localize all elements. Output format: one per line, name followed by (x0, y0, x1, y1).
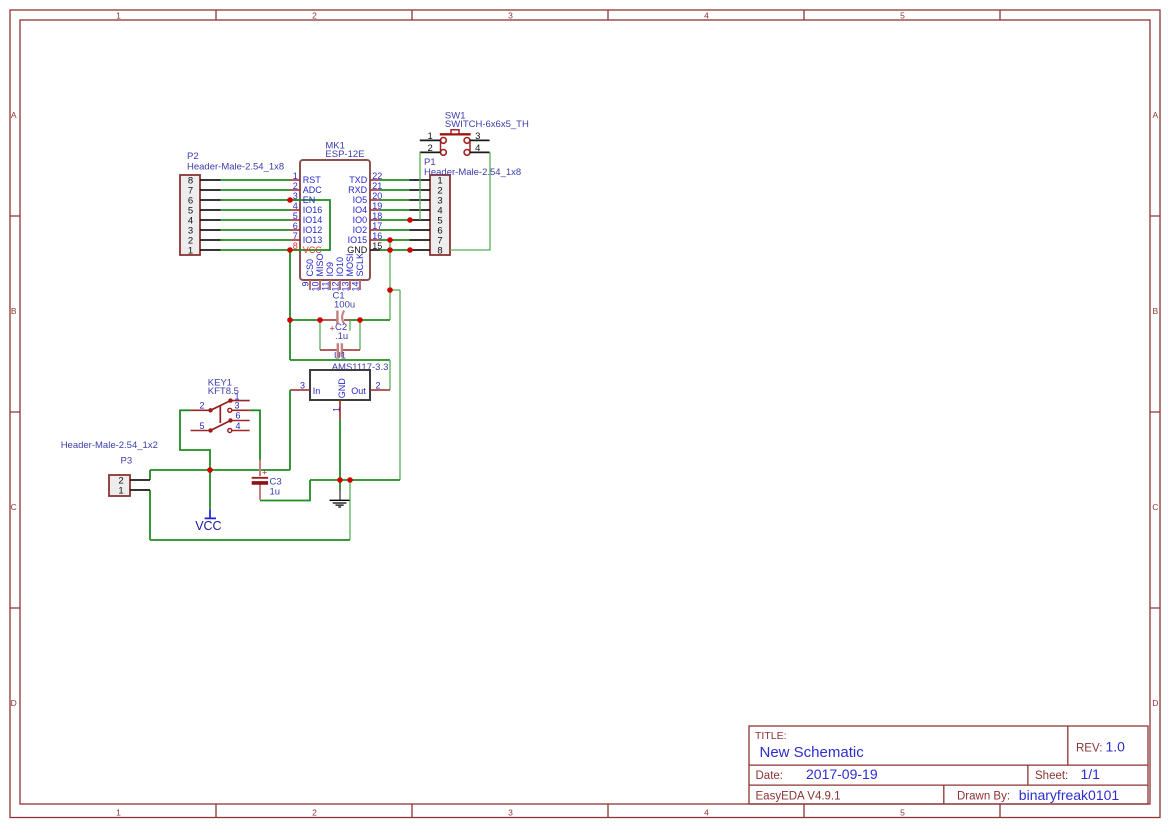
svg-text:IO13: IO13 (303, 235, 323, 245)
svg-text:5: 5 (900, 10, 905, 20)
svg-text:8: 8 (437, 245, 442, 256)
capacitor C2 labels (335, 322, 348, 342)
frame tick marks top (216, 10, 1000, 20)
svg-text:5: 5 (199, 421, 204, 431)
switch SW1 labels (445, 110, 529, 130)
wire ground rail left drop to C3 (260, 480, 310, 501)
switch KEY1 pin numbers (199, 391, 240, 430)
switch KEY1 labels (208, 377, 239, 397)
svg-text:IO2: IO2 (353, 225, 368, 235)
wire C2 parallel left vertical (319, 320, 321, 350)
switch SW1 button bar (440, 133, 471, 135)
capacitor C1 curved plate (342, 311, 344, 325)
svg-text:IO4: IO4 (353, 205, 368, 215)
switch SW1 pin lines (420, 140, 490, 152)
svg-text:2: 2 (428, 143, 433, 154)
wire MK1 TXD to P1 pin1 (380, 179, 410, 181)
header P1 body (430, 175, 450, 255)
svg-text:A: A (11, 110, 17, 120)
svg-text:4: 4 (293, 201, 298, 211)
svg-text:RXD: RXD (348, 185, 368, 195)
regulator U1 labels (332, 351, 389, 374)
svg-text:15: 15 (372, 241, 382, 251)
svg-text:17: 17 (372, 221, 382, 231)
header P3 body (109, 475, 130, 496)
chip MK1 ESP-12E body (300, 160, 370, 280)
wire P2 pin1 to MK1 VCC (221, 249, 291, 251)
frame tick marks bottom (216, 804, 1000, 818)
svg-text:3: 3 (300, 381, 305, 391)
svg-text:9: 9 (301, 282, 311, 287)
chip MK1 left pin stubs 1-7 (290, 180, 300, 250)
wire SW1 pin4 down and left to P1 pin8 (450, 152, 490, 250)
ground symbol bars (330, 500, 350, 507)
svg-text:EN: EN (303, 195, 316, 205)
switch KEY1 contact dots (208, 398, 232, 432)
chip MK1 left pin names (303, 175, 323, 255)
svg-text:11: 11 (321, 282, 331, 291)
switch KEY1 pin lines (191, 401, 250, 431)
svg-text:TXD: TXD (349, 175, 368, 185)
svg-text:MOSI: MOSI (345, 253, 355, 276)
frame row letters left (11, 110, 17, 708)
svg-text:1: 1 (331, 407, 341, 412)
switch KEY1 diagonal bars (211, 401, 231, 431)
wire C2 parallel right vertical (359, 320, 361, 350)
svg-text:7: 7 (293, 231, 298, 241)
wire P2 pin4 to MK1 IO14 (221, 219, 291, 221)
svg-text:CS0: CS0 (305, 259, 315, 277)
svg-text:1: 1 (116, 808, 121, 818)
wire P3 pin2 up to VCC rail (149, 470, 151, 480)
switch SW1 button bump (451, 130, 459, 134)
VCC net flag symbol (205, 509, 216, 518)
svg-text:binaryfreak0101: binaryfreak0101 (1019, 787, 1120, 803)
svg-text:2017-09-19: 2017-09-19 (806, 766, 878, 782)
wire P3 pin1 to bottom rail (149, 490, 151, 540)
svg-text:6: 6 (235, 411, 240, 421)
wire U1 In down to VCC rail (289, 390, 291, 470)
wire KEY1 pin3 to C3 (250, 410, 260, 460)
frame row letters right (1152, 110, 1158, 708)
svg-text:SCLK: SCLK (355, 253, 365, 277)
wire SW1 pin2 down to P1 pin5 row (419, 152, 421, 220)
capacitor C3 top plate (252, 477, 268, 479)
svg-text:RST: RST (303, 175, 322, 185)
svg-text:Drawn By:: Drawn By: (957, 790, 1010, 802)
ground symbol stem (339, 480, 341, 490)
wire dangling stub at C1 right (349, 320, 351, 331)
switch SW1 side links (441, 140, 471, 152)
svg-text:IO10: IO10 (335, 257, 345, 277)
svg-text:1: 1 (428, 131, 433, 142)
capacitor C1 straight plate (336, 311, 338, 325)
svg-text:Header-Male-2.54_1x8: Header-Male-2.54_1x8 (187, 161, 284, 172)
chip MK1 right pin stubs 22-16 (370, 180, 380, 240)
svg-text:12: 12 (331, 282, 341, 292)
wire MK1 IO2 to P1 pin6 (380, 229, 410, 231)
title block values (760, 739, 1126, 803)
wire MK1 IO15 to P1 pin7 (380, 239, 410, 241)
switch KEY1 open contacts (228, 408, 232, 432)
wire MK1 RXD to P1 pin2 (380, 189, 410, 191)
wire MK1 GND to P1 pin8 (380, 249, 410, 251)
svg-text:B: B (11, 306, 17, 316)
regulator U1 pin numbers (300, 381, 381, 412)
svg-text:1u: 1u (270, 486, 281, 497)
svg-text:3: 3 (475, 131, 480, 142)
svg-text:Header-Male-2.54_1x2: Header-Male-2.54_1x2 (61, 440, 158, 451)
svg-text:IO15: IO15 (348, 235, 368, 245)
svg-text:Date:: Date: (756, 770, 784, 782)
wire GND net vertical IO15-GND rows down (389, 240, 391, 320)
svg-text:2: 2 (312, 808, 317, 818)
svg-text:3: 3 (508, 10, 513, 20)
regulator U1 pin stubs (290, 390, 390, 420)
wire ground loop right drop (349, 480, 351, 540)
svg-text:C: C (1152, 502, 1158, 512)
capacitor C3 bottom plate (252, 481, 268, 485)
wire KEY1 pin2 staircase to VCC junction (180, 410, 210, 470)
wire VCC33 rail to U1 Out (290, 359, 390, 361)
wire GND long vertical x400 (399, 290, 401, 480)
svg-text:A: A (1152, 110, 1158, 120)
svg-text:2: 2 (199, 400, 204, 410)
capacitor C3 labels (270, 476, 282, 497)
svg-text:REV:: REV: (1076, 743, 1102, 755)
regulator U1 body (310, 370, 370, 400)
junction dots (207, 197, 413, 483)
header P3 pin stubs (130, 480, 150, 490)
svg-text:13: 13 (341, 282, 351, 292)
svg-text:1/1: 1/1 (1081, 766, 1101, 782)
frame column numbers top (116, 10, 905, 20)
header P2 body (180, 175, 200, 255)
svg-text:New Schematic: New Schematic (760, 744, 865, 761)
header P2 labels (187, 151, 284, 173)
svg-text:Header-Male-2.54_1x8: Header-Male-2.54_1x8 (424, 167, 521, 178)
svg-text:C: C (11, 502, 17, 512)
svg-text:IO5: IO5 (353, 195, 368, 205)
chip MK1 right pin numbers (372, 171, 382, 251)
svg-text:MISO: MISO (315, 253, 325, 276)
switch SW1 pin numbers (428, 131, 481, 154)
svg-text:1: 1 (116, 10, 121, 20)
svg-text:20: 20 (372, 191, 382, 201)
svg-text:2: 2 (293, 181, 298, 191)
wire EN to VCC loop over chip (290, 200, 330, 250)
wire MK1 IO4 to P1 pin4 (380, 209, 410, 211)
wire P2 pin6 to MK1 EN (221, 199, 291, 201)
switch SW1 contact circles (441, 138, 470, 156)
wire GND jog right at 290 (390, 289, 400, 291)
svg-text:D: D (1152, 698, 1158, 708)
capacitor C1 pin stubs (321, 319, 350, 321)
wire Out vertical drop (389, 360, 391, 390)
svg-text:KFT8.5: KFT8.5 (208, 386, 239, 397)
svg-text:6: 6 (293, 221, 298, 231)
capacitor C3 pin stubs (259, 460, 261, 500)
svg-text:U1: U1 (334, 351, 346, 362)
svg-text:10: 10 (311, 282, 321, 292)
wire P2 pin8 to MK1 RST (221, 179, 291, 181)
svg-text:18: 18 (372, 211, 382, 221)
chip MK1 right pin names (347, 175, 368, 255)
svg-text:4: 4 (704, 808, 709, 818)
wire VCC33 vertical from MK1 VCC down (289, 250, 291, 360)
wire ground bottom rail y540 (150, 539, 350, 541)
capacitor C1 labels (333, 291, 356, 311)
svg-text:VCC: VCC (195, 519, 221, 533)
wire VCC rail y470 (150, 469, 290, 471)
wire P2 pin2 to MK1 IO13 (221, 239, 291, 241)
svg-text:16: 16 (372, 231, 382, 241)
capacitor C2 pin stubs (320, 349, 360, 351)
svg-text:D: D (11, 698, 17, 708)
chip MK1 reference labels (325, 140, 364, 160)
header P2 pin stubs (200, 180, 221, 250)
svg-text:1: 1 (118, 485, 123, 496)
svg-text:IO12: IO12 (303, 225, 323, 235)
switch KEY1 center link (219, 406, 221, 423)
svg-text:TITLE:: TITLE: (755, 730, 787, 742)
svg-text:SWITCH-6x6x5_TH: SWITCH-6x6x5_TH (445, 119, 529, 130)
frame column numbers bottom (116, 808, 905, 818)
svg-text:In: In (313, 386, 321, 396)
header P3 labels (61, 440, 158, 467)
svg-text:EasyEDA V4.9.1: EasyEDA V4.9.1 (756, 790, 841, 802)
svg-text:1: 1 (188, 245, 193, 256)
svg-text:14: 14 (351, 282, 361, 292)
wire P2 pin7 to MK1 ADC (221, 189, 291, 191)
wire P2 pin3 to MK1 IO12 (221, 229, 291, 231)
svg-text:GND: GND (337, 378, 347, 399)
svg-text:4: 4 (704, 10, 709, 20)
svg-text:ESP-12E: ESP-12E (325, 149, 364, 160)
svg-text:.1u: .1u (335, 331, 348, 342)
svg-text:Sheet:: Sheet: (1035, 770, 1068, 782)
chip MK1 bottom pin numbers rotated (301, 282, 361, 292)
svg-text:3: 3 (293, 191, 298, 201)
svg-text:IO16: IO16 (303, 205, 323, 215)
svg-text:IO14: IO14 (303, 215, 323, 225)
svg-text:Out: Out (351, 386, 366, 396)
wire cap top rail right segment (350, 319, 390, 321)
title block labels (755, 730, 1102, 803)
wire cap top rail left segment (290, 319, 321, 321)
svg-text:2: 2 (376, 381, 381, 391)
svg-text:+: + (262, 468, 267, 478)
wire P2 pin5 to MK1 IO16 (221, 209, 291, 211)
svg-text:+: + (330, 324, 335, 334)
svg-text:IO0: IO0 (353, 215, 368, 225)
svg-text:1: 1 (293, 171, 298, 181)
frame tick marks left (10, 216, 20, 608)
svg-text:4: 4 (235, 421, 240, 431)
capacitor C2 plates (338, 343, 342, 357)
svg-text:ADC: ADC (303, 185, 323, 195)
svg-text:21: 21 (372, 181, 382, 191)
header P2 pin numbers (188, 175, 193, 256)
svg-text:B: B (1152, 306, 1158, 316)
chip MK1 bottom pin names rotated (305, 253, 365, 277)
svg-text:2: 2 (312, 10, 317, 20)
wire ground rail y480 (310, 479, 400, 481)
svg-text:3: 3 (508, 808, 513, 818)
chip MK1 pin 15 GND stub (370, 249, 380, 251)
title block outline (749, 726, 1148, 804)
svg-text:8: 8 (293, 241, 298, 251)
svg-text:P3: P3 (121, 456, 133, 467)
svg-text:1.0: 1.0 (1106, 739, 1126, 755)
svg-text:3: 3 (234, 400, 239, 410)
wire U1 GND down to ground junction (339, 420, 341, 481)
VCC net flag stem (209, 470, 211, 509)
svg-text:22: 22 (372, 171, 382, 181)
header P1 pin numbers (437, 175, 442, 256)
svg-text:P2: P2 (187, 151, 199, 162)
header P1 pin stubs (410, 180, 431, 250)
svg-text:IO9: IO9 (325, 262, 335, 277)
chip MK1 bottom pin stubs 9-14 (310, 280, 360, 290)
wire MK1 IO5 to P1 pin3 (380, 199, 410, 201)
header P1 labels (424, 157, 521, 178)
wire MK1 IO0 to P1 pin5 (380, 219, 410, 221)
regulator U1 pin names (313, 378, 366, 399)
svg-text:5: 5 (900, 808, 905, 818)
svg-text:19: 19 (372, 201, 382, 211)
chip MK1 left pin numbers (293, 171, 298, 251)
svg-text:4: 4 (475, 143, 480, 154)
frame tick marks right (1150, 216, 1160, 608)
svg-text:5: 5 (293, 211, 298, 221)
header P3 pin numbers (118, 475, 123, 496)
svg-text:100u: 100u (334, 300, 355, 311)
